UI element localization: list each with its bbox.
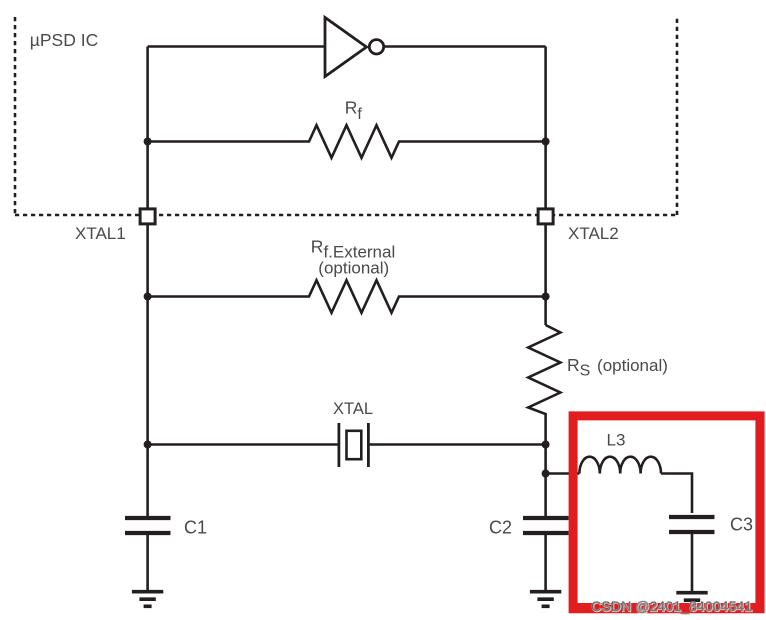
svg-text:µPSD IC: µPSD IC xyxy=(30,30,98,50)
svg-text:L3: L3 xyxy=(607,431,626,450)
svg-text:XTAL2: XTAL2 xyxy=(568,224,619,243)
svg-text:C2: C2 xyxy=(489,518,512,538)
svg-text:CSDN @2401_84004541: CSDN @2401_84004541 xyxy=(591,599,752,615)
svg-text:XTAL1: XTAL1 xyxy=(75,224,126,243)
svg-text:(optional): (optional) xyxy=(318,259,389,278)
svg-text:C3: C3 xyxy=(730,515,753,535)
svg-text:XTAL: XTAL xyxy=(333,400,373,418)
svg-text:C1: C1 xyxy=(184,518,207,538)
